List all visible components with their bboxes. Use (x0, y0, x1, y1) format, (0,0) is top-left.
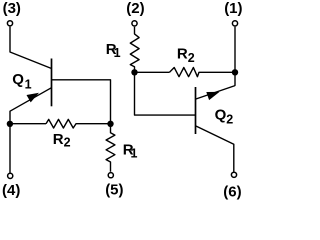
terminal pin 3 (7, 21, 12, 26)
wire pin1 down to emitter join (234, 27, 236, 86)
wire pin3 to Q1 collector (10, 27, 52, 69)
svg-text:(4): (4) (2, 182, 20, 199)
transistor Q1 emitter arrow (PNP, pointing into bar) (27, 93, 40, 103)
terminal pin 2 (132, 21, 137, 26)
resistor R1 (left) zigzag (106, 124, 115, 172)
junction dot right base-feed node (131, 69, 137, 75)
transistor Q2 base bar (195, 87, 197, 134)
wire node down to Q2 base lead (135, 72, 196, 115)
svg-text:(1): (1) (224, 0, 242, 17)
svg-text:(3): (3) (3, 0, 21, 17)
wire node to pin 4 (9, 124, 11, 173)
transistor Q1 emitter (10, 88, 52, 121)
junction dot left emitter node (7, 121, 13, 127)
svg-text:R1: R1 (106, 41, 121, 60)
terminal pin 6 (231, 172, 236, 177)
terminal pin 4 (8, 173, 13, 178)
wire left horizontal net (4)-node (10, 123, 46, 125)
transistor Q2 emitter arrow (NPN, pointing out) (206, 92, 219, 100)
resistor R2 (right) zigzag (170, 68, 236, 77)
svg-text:(6): (6) (223, 183, 241, 200)
svg-text:R2: R2 (177, 46, 195, 66)
svg-text:Q2: Q2 (215, 107, 234, 127)
resistor R1 (right) zigzag (130, 27, 139, 70)
wire Q1 base lead to node (52, 80, 111, 121)
resistor R2 (left) zigzag (46, 119, 111, 128)
svg-text:(5): (5) (105, 182, 123, 199)
transistor Q2 collector to pin 6 (196, 126, 234, 172)
svg-text:Q1: Q1 (12, 71, 31, 92)
wire right horizontal net (135, 71, 170, 73)
transistor Q2 emitter (196, 86, 235, 99)
svg-text:R1: R1 (123, 142, 138, 161)
terminal pin 1 (232, 21, 237, 26)
junction dot right top node (232, 69, 238, 75)
terminal pin 5 (108, 173, 113, 178)
svg-text:(2): (2) (126, 0, 144, 17)
transistor Q1 base bar (51, 59, 53, 107)
svg-text:R2: R2 (53, 131, 71, 149)
junction dot left base node (107, 121, 113, 127)
